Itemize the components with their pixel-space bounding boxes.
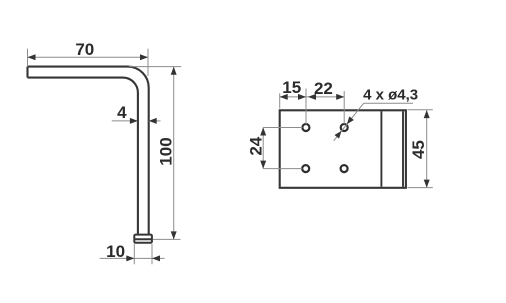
dimension 15 extension lines (280, 89, 306, 125)
svg-text:70: 70 (75, 40, 94, 59)
dimension 15 arrowheads (280, 94, 306, 100)
svg-text:10: 10 (106, 242, 125, 261)
hole top-right (341, 124, 348, 131)
dimension 22 line (306, 96, 344, 98)
hole callout arrowheads (335, 116, 354, 138)
svg-text:24: 24 (246, 136, 265, 155)
dimension 10 arrowheads (126, 255, 160, 261)
dimension 15 line (280, 96, 306, 98)
dimension 45 line (426, 110, 428, 187)
dimension 4 arrow right (149, 118, 161, 124)
dimension 70 line (28, 56, 149, 58)
svg-text:15: 15 (282, 78, 301, 97)
dimension 22 extension line (343, 91, 345, 124)
svg-text:45: 45 (409, 140, 428, 159)
L-bracket side view outline (28, 67, 149, 235)
hole callout leader line (334, 103, 413, 141)
dimension 45 arrowheads (424, 110, 430, 188)
mounting plate outline (280, 110, 406, 188)
dimension 10 line (100, 257, 165, 259)
hole bottom-right (341, 165, 348, 172)
dimension 70 arrowheads (28, 54, 149, 60)
plate edge double line (402, 111, 404, 187)
dimension 70 extension lines (28, 49, 149, 76)
dimension 10 extension lines (134, 244, 152, 264)
dimension 24 extension lines (263, 128, 302, 169)
dimension 100 arrowheads (171, 67, 177, 240)
dimension 4 arrow left (112, 118, 138, 124)
svg-text:22: 22 (314, 79, 333, 98)
dimension 24 line (262, 128, 264, 169)
dimension 22 arrowheads (308, 94, 344, 100)
dimension 24 arrowheads (260, 128, 266, 169)
foot cap of bracket (134, 235, 152, 243)
svg-text:100: 100 (156, 137, 175, 165)
plate bend line (380, 111, 382, 187)
dimension 45 extension lines (408, 110, 433, 188)
svg-text:4 x ø4,3: 4 x ø4,3 (363, 86, 418, 103)
hole top-left (302, 124, 309, 131)
hole bottom-left (302, 165, 309, 172)
svg-text:4: 4 (117, 103, 127, 122)
dimension 100 line (173, 67, 175, 239)
dimension 100 extension lines (129, 67, 181, 240)
